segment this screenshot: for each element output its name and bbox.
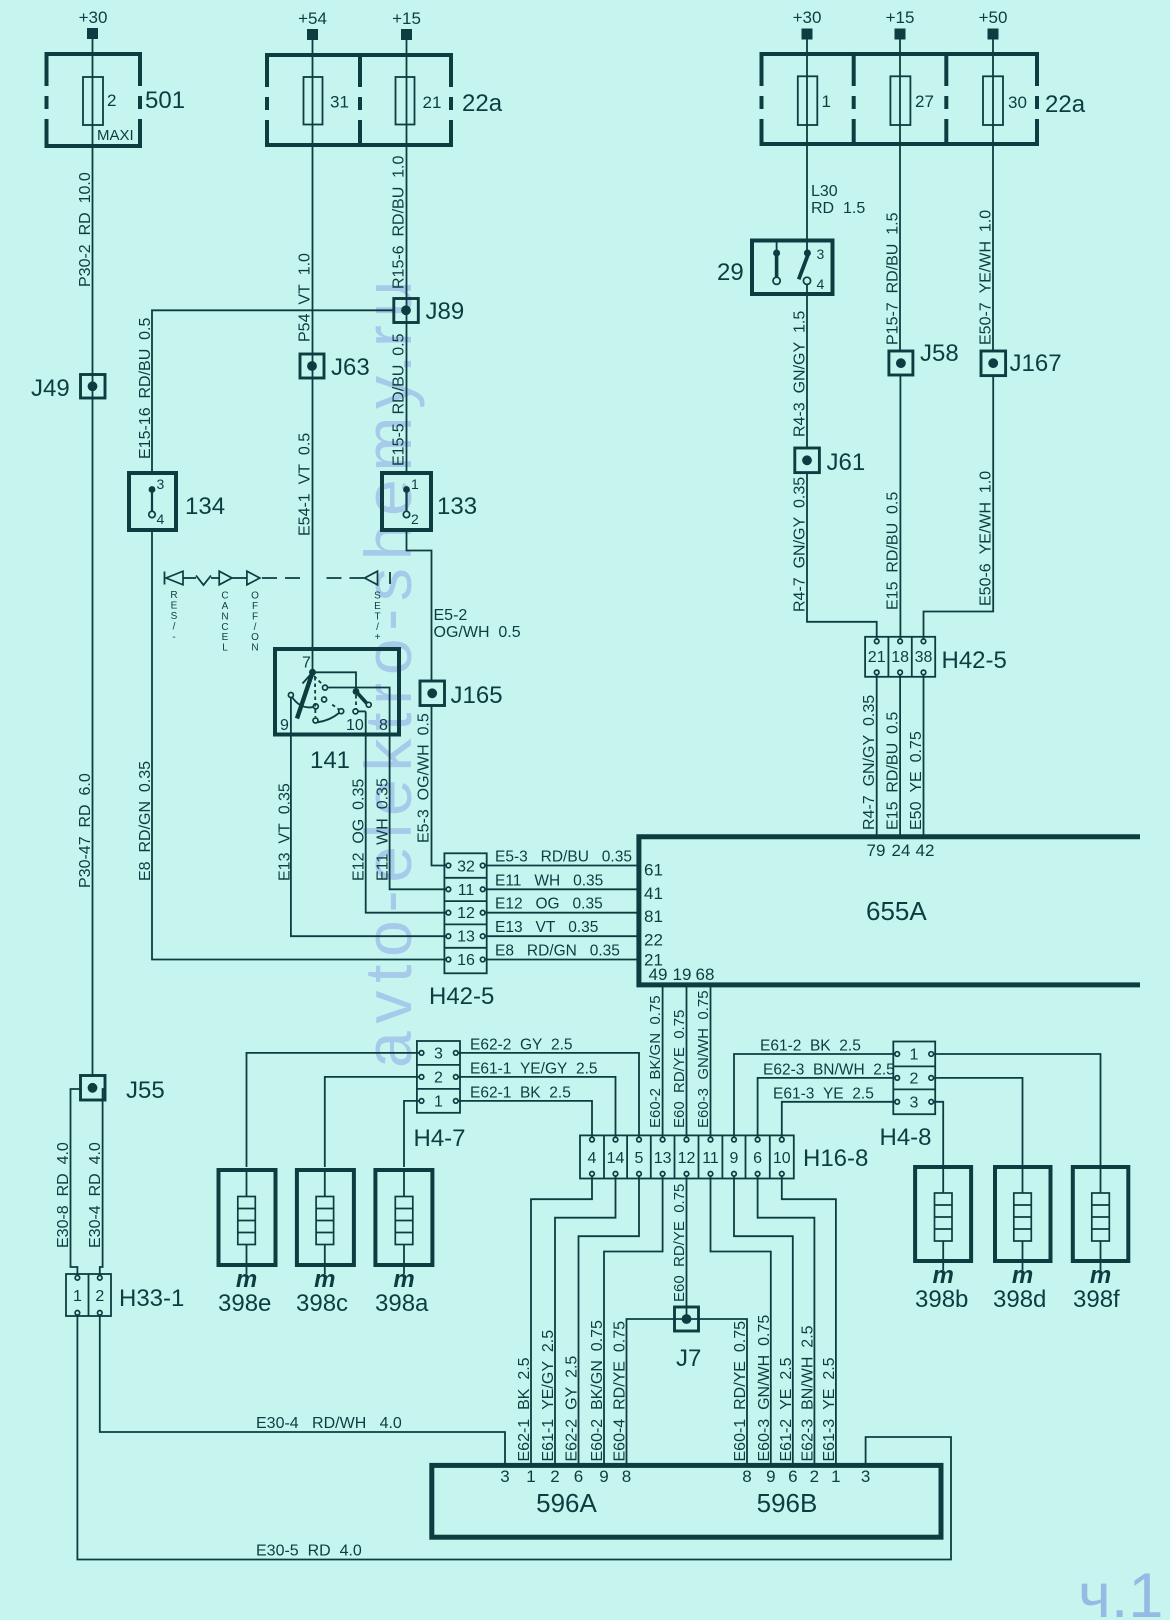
wire P15-7 RD/BU 1.5	[899, 144, 901, 351]
svg-text:29: 29	[717, 259, 744, 286]
svg-text:1: 1	[434, 1093, 443, 1110]
wire E62-3 BN/WH 2.5 H16-8 pin6 to 596B pin2	[758, 1176, 815, 1465]
svg-text:22a: 22a	[462, 90, 503, 117]
svg-text:141: 141	[310, 747, 350, 774]
svg-text:38: 38	[915, 649, 933, 666]
wire E60-1 RD/YE 0.75 J7 to 596B pin8	[687, 1319, 748, 1465]
svg-text:E54-1 VT 0.5: E54-1 VT 0.5	[297, 433, 314, 536]
svg-text:E60-3 GN/WH 0.75: E60-3 GN/WH 0.75	[756, 1315, 773, 1462]
terminal +30 right	[793, 8, 822, 40]
wire E60-3 GN/WH 0.75 655A pin68 to H16-8	[710, 985, 712, 1137]
dashed spokes	[314, 676, 323, 685]
wire E5-3 RD/BU 0.35 to 655A pin61	[485, 865, 639, 867]
wire E50-7 YE/WH 1.0	[992, 144, 994, 351]
stalk labels RES/- CANCEL OFF/ON SET/+	[170, 590, 381, 654]
wiper blade	[297, 672, 313, 718]
svg-text:596B: 596B	[757, 1488, 818, 1518]
wire R4-3 GN/GY 1.5	[806, 284, 808, 448]
svg-text:E61-3 YE 2.5: E61-3 YE 2.5	[773, 1086, 874, 1103]
link pin7 to right contact	[313, 672, 357, 689]
svg-text:H16-8: H16-8	[803, 1145, 868, 1172]
wire E61-3 YE 2.5 H16-8 pin10 to 596B pin1	[782, 1176, 836, 1465]
svg-text:12: 12	[678, 1150, 696, 1167]
svg-text:OG/WH 0.5: OG/WH 0.5	[434, 624, 521, 641]
relay 29	[717, 241, 833, 295]
svg-text:H42-5: H42-5	[942, 647, 1007, 674]
svg-text:E50-6 YE/WH 1.0: E50-6 YE/WH 1.0	[978, 471, 995, 606]
contact circles arc	[288, 693, 293, 698]
svg-text:398a: 398a	[375, 1290, 429, 1317]
svg-text:31: 31	[330, 93, 349, 112]
svg-text:m: m	[236, 1266, 257, 1293]
junction J165	[420, 681, 503, 709]
svg-text:R4-3 GN/GY 1.5: R4-3 GN/GY 1.5	[792, 311, 809, 437]
svg-text:655A: 655A	[866, 896, 927, 926]
terminal +54	[298, 9, 327, 40]
svg-text:O: O	[251, 591, 259, 602]
wire E60 RD/YE 0.75 655A pin19 to H16-8	[686, 985, 688, 1137]
wire E12 OG 0.35 pin10 to H42-5	[366, 711, 447, 912]
svg-text:8: 8	[622, 1467, 631, 1486]
svg-text:L: L	[222, 643, 228, 654]
connector H33-1	[66, 1274, 184, 1316]
junction J7	[675, 1307, 702, 1372]
svg-text:42: 42	[916, 841, 935, 860]
fuse holder 501	[43, 54, 185, 146]
svg-text:E15-16 RD/BU 0.5: E15-16 RD/BU 0.5	[137, 318, 154, 460]
wire R4-7 GN/GY 0.35 to 655A pin79	[876, 675, 878, 837]
connector H4-7	[414, 1041, 466, 1152]
wire E60-2 BK/GN 0.75 H16-8 pin13 to 596A pin9	[604, 1176, 663, 1465]
switch 134	[129, 473, 225, 530]
svg-text:R4-7 GN/GY 0.35: R4-7 GN/GY 0.35	[792, 477, 809, 612]
svg-text:398b: 398b	[915, 1286, 968, 1313]
wire E12 OG 0.35 to 655A pin81	[485, 912, 639, 914]
svg-text:398f: 398f	[1073, 1286, 1120, 1313]
wire E60-4 RD/YE 0.75 J7 to 596A pin8	[627, 1319, 687, 1465]
svg-text:68: 68	[696, 965, 715, 984]
arc segments	[292, 698, 313, 708]
svg-text:C: C	[221, 591, 228, 602]
wire +30 to fusebox 501	[92, 39, 94, 54]
svg-text:398d: 398d	[993, 1286, 1046, 1313]
connector H16-8	[580, 1135, 868, 1178]
svg-text:m: m	[393, 1266, 414, 1293]
junction J167	[981, 350, 1062, 377]
svg-text:T: T	[374, 611, 380, 622]
svg-text:21: 21	[868, 649, 886, 666]
wire P30-2 RD 10.0	[92, 146, 94, 1077]
svg-text:3: 3	[817, 246, 825, 262]
fuse holder 22a right	[758, 54, 1086, 144]
svg-text:6: 6	[753, 1150, 762, 1167]
svg-text:1: 1	[822, 92, 831, 111]
fuse 1	[798, 54, 831, 144]
svg-text:R: R	[170, 590, 177, 601]
svg-text:133: 133	[437, 493, 477, 520]
svg-text:S: S	[374, 591, 381, 602]
rotary switch 141	[275, 649, 399, 774]
svg-text:13: 13	[457, 929, 475, 946]
heater 398f	[1073, 1167, 1129, 1313]
svg-text:8: 8	[379, 717, 388, 734]
wire P54 VT 1.0	[312, 146, 314, 672]
svg-text:E60-2 BK/GN 0.75: E60-2 BK/GN 0.75	[647, 995, 664, 1128]
svg-text:E62-3 BN/WH 2.5: E62-3 BN/WH 2.5	[763, 1062, 895, 1079]
wire H4-8 pin2 to heater 398d	[934, 1078, 1023, 1167]
svg-text:J167: J167	[1010, 350, 1062, 377]
svg-text:avto-elektro-shemy.ru: avto-elektro-shemy.ru	[351, 273, 425, 1068]
svg-text:2: 2	[550, 1467, 559, 1486]
svg-text:E15 RD/BU 0.5: E15 RD/BU 0.5	[885, 712, 902, 830]
svg-text:E62-1 BK 2.5: E62-1 BK 2.5	[470, 1085, 571, 1102]
fuse 2 in 501	[83, 54, 116, 146]
wire E62-2 GY 2.5 H16-8 pin5 to 596A pin6	[579, 1176, 640, 1465]
svg-text:H42-5: H42-5	[429, 983, 494, 1010]
wire E13 VT 0.35 pin9 to H42-5	[291, 698, 446, 936]
wire H4-7 pin2 to heater 398c	[325, 1077, 419, 1167]
svg-text:O: O	[251, 632, 259, 643]
svg-text:E61-2 BK 2.5: E61-2 BK 2.5	[760, 1038, 861, 1055]
svg-text:E13 VT 0.35: E13 VT 0.35	[495, 919, 598, 936]
svg-text:7: 7	[302, 655, 311, 672]
svg-text:2: 2	[434, 1069, 443, 1086]
svg-text:E62-3 BN/WH 2.5: E62-3 BN/WH 2.5	[799, 1325, 816, 1461]
wire E50-6 YE/WH 1.0 to H42-5 pin38	[924, 376, 994, 639]
svg-text:1: 1	[910, 1047, 919, 1064]
junction J61	[795, 448, 865, 476]
svg-text:E30-4 RD 4.0: E30-4 RD 4.0	[87, 1142, 104, 1248]
svg-text:E: E	[171, 601, 178, 612]
svg-text:E61-1 YE/GY 2.5: E61-1 YE/GY 2.5	[540, 1330, 557, 1462]
svg-text:+: +	[375, 632, 381, 643]
heater 398b	[915, 1167, 971, 1313]
svg-text:E60 RD/YE 0.75: E60 RD/YE 0.75	[671, 1010, 688, 1128]
svg-text:/: /	[173, 622, 176, 633]
glow plug timer unit 596A/596B	[432, 1465, 941, 1537]
wire E8 RD/GN 0.35 from 134 to H42-5 pin16	[152, 530, 446, 960]
svg-text:10: 10	[773, 1150, 791, 1167]
svg-text:1: 1	[411, 476, 419, 492]
svg-text:E60-2 BK/GN 0.75: E60-2 BK/GN 0.75	[589, 1320, 606, 1462]
svg-text:3: 3	[861, 1467, 870, 1486]
svg-text:E30-4 RD/WH 4.0: E30-4 RD/WH 4.0	[256, 1415, 402, 1432]
svg-text:12: 12	[457, 905, 475, 922]
svg-text:J89: J89	[426, 298, 465, 325]
svg-text:J7: J7	[676, 1345, 701, 1372]
svg-text:49: 49	[649, 965, 668, 984]
svg-text:9: 9	[280, 717, 289, 734]
wire E30-4 RD 4.0 bus right	[100, 1089, 105, 1276]
svg-text:9: 9	[730, 1150, 739, 1167]
wire E50 YE 0.75 to 655A pin42	[923, 675, 925, 837]
svg-text:+15: +15	[392, 9, 421, 28]
wire H4-7 pin1 to heater 398a	[404, 1101, 419, 1167]
wire E60-2 BK/GN 0.75 655A pin49 to H16-8	[662, 985, 664, 1137]
heater 398a	[375, 1170, 432, 1317]
svg-text:E11 WH 0.35: E11 WH 0.35	[375, 778, 392, 881]
connector H42-5 left	[429, 853, 494, 1010]
svg-text:E12 OG 0.35: E12 OG 0.35	[351, 779, 368, 881]
svg-text:E50 YE 0.75: E50 YE 0.75	[908, 731, 925, 830]
svg-text:22: 22	[644, 930, 663, 949]
stalk position arrows row	[165, 571, 391, 585]
svg-text:E62-2 GY 2.5: E62-2 GY 2.5	[470, 1037, 573, 1054]
svg-text:41: 41	[644, 884, 663, 903]
svg-text:+30: +30	[79, 8, 108, 27]
svg-text:+54: +54	[298, 9, 327, 28]
svg-text:H4-7: H4-7	[414, 1125, 466, 1152]
wire E61-1 YE/GY 2.5 H16-8 pin14 to 596A pin2	[555, 1176, 616, 1465]
svg-text:E60 RD/YE 0.75: E60 RD/YE 0.75	[671, 1184, 688, 1302]
svg-text:E61-2 YE 2.5: E61-2 YE 2.5	[778, 1357, 795, 1461]
junction J89	[394, 298, 464, 325]
wire E5-3 OG/WH 0.5 from J165 to H42-5 pin32	[432, 706, 447, 866]
svg-text:J63: J63	[331, 354, 370, 381]
junction J63	[300, 354, 370, 381]
heater 398e	[218, 1170, 276, 1317]
wire E13 VT 0.35 to 655A pin22	[485, 935, 639, 937]
svg-text:R4-7 GN/GY 0.35: R4-7 GN/GY 0.35	[861, 695, 878, 830]
svg-text:E61-3 YE 2.5: E61-3 YE 2.5	[821, 1357, 838, 1461]
wire E30-8 RD 4.0 bus left	[71, 1089, 82, 1276]
svg-text:6: 6	[788, 1467, 797, 1486]
wire E60-3 GN/WH 0.75 H16-8 pin11 to 596B pin9	[711, 1176, 771, 1465]
wire E61-2 BK 2.5 H16-8 to H4-8 pin1	[734, 1054, 895, 1137]
connector H42-5 right	[865, 637, 1007, 677]
svg-text:18: 18	[891, 649, 909, 666]
fuse 21	[396, 55, 442, 145]
svg-text:N: N	[221, 611, 228, 622]
wire E62-1 BK 2.5 H4-7 pin1 to H16-8	[458, 1101, 592, 1137]
svg-text:E5-3 RD/BU 0.35: E5-3 RD/BU 0.35	[495, 849, 632, 866]
terminal +15 right	[886, 8, 915, 40]
svg-text:F: F	[252, 601, 258, 612]
fuse 31	[304, 55, 349, 145]
terminal +30 left	[79, 8, 108, 39]
wire jog from J89 to switch 134 branch	[152, 310, 394, 473]
wire E5-2 OG/WH 0.5 from 133 to J165	[407, 530, 432, 681]
svg-text:27: 27	[915, 92, 934, 111]
svg-text:m: m	[314, 1266, 335, 1293]
wire E15 RD/BU 0.5 to H42-5 pin18	[899, 375, 901, 639]
svg-text:3: 3	[157, 476, 165, 492]
wire E15 RD/BU 0.5 to 655A pin24	[899, 675, 901, 837]
svg-text:E30-5 RD 4.0: E30-5 RD 4.0	[256, 1543, 362, 1560]
svg-text:596A: 596A	[536, 1488, 597, 1518]
svg-text:11: 11	[458, 882, 475, 899]
svg-text:14: 14	[607, 1150, 625, 1167]
svg-text:E50-7 YE/WH 1.0: E50-7 YE/WH 1.0	[978, 210, 995, 345]
svg-text:E12 OG 0.35: E12 OG 0.35	[495, 896, 603, 913]
svg-text:E8 RD/GN 0.35: E8 RD/GN 0.35	[495, 943, 620, 960]
svg-text:1: 1	[831, 1467, 840, 1486]
svg-text:79: 79	[867, 841, 886, 860]
svg-text:J58: J58	[920, 340, 959, 367]
svg-text:N: N	[251, 643, 258, 654]
svg-text:9: 9	[766, 1467, 775, 1486]
svg-text:MAXI: MAXI	[97, 127, 134, 144]
svg-text:398c: 398c	[296, 1290, 348, 1317]
fuse 27	[890, 54, 934, 144]
svg-text:E5-2: E5-2	[434, 607, 468, 624]
wire E62-1 BK 2.5 H16-8 pin4 to 596A pin1	[531, 1176, 592, 1465]
svg-text:E60-3 GN/WH 0.75: E60-3 GN/WH 0.75	[695, 990, 712, 1128]
heater 398c	[296, 1170, 354, 1317]
svg-text:RD 1.5: RD 1.5	[811, 200, 865, 217]
wire E62-2 GY 2.5 H4-7 pin3 to H16-8	[458, 1053, 639, 1137]
svg-text:/: /	[254, 622, 257, 633]
svg-text:+15: +15	[886, 8, 915, 27]
junction J55	[81, 1076, 165, 1105]
heater 398d	[993, 1167, 1051, 1313]
wires terminals to fusebox	[806, 40, 808, 55]
svg-text:134: 134	[185, 493, 225, 520]
svg-text:8: 8	[742, 1467, 751, 1486]
wire R4-7 GN/GY 0.35 to H42-5 pin21	[807, 473, 877, 639]
svg-text:3: 3	[910, 1094, 919, 1111]
svg-text:-: -	[172, 632, 175, 643]
wire E61-2 YE 2.5 H16-8 pin9 to 596B pin6	[734, 1176, 793, 1465]
svg-text:P30-2 RD 10.0: P30-2 RD 10.0	[77, 172, 94, 287]
wire H4-8 pin1 to heater 398f	[934, 1054, 1101, 1167]
svg-text:ч.1: ч.1	[1078, 1561, 1163, 1620]
connector H4-8	[880, 1042, 936, 1152]
svg-text:398e: 398e	[218, 1290, 271, 1317]
svg-text:81: 81	[644, 907, 663, 926]
svg-text:E11 WH 0.35: E11 WH 0.35	[495, 872, 603, 889]
pin7 contact dot	[309, 669, 316, 676]
wire E11 WH 0.35 to 655A pin41	[485, 888, 639, 890]
right blade	[356, 692, 367, 704]
wire E30-5 RD 4.0 H33-1 pin1 to 596B pin3	[77, 1315, 951, 1560]
svg-text:H33-1: H33-1	[119, 1285, 184, 1312]
svg-text:+50: +50	[979, 8, 1008, 27]
fuse 30	[983, 54, 1027, 144]
control unit 655A	[639, 837, 1140, 985]
svg-text:E: E	[222, 632, 229, 643]
svg-text:E15 RD/BU 0.5: E15 RD/BU 0.5	[885, 492, 902, 610]
svg-text:32: 32	[457, 859, 475, 876]
svg-text:R15-6 RD/BU 1.0: R15-6 RD/BU 1.0	[391, 156, 408, 289]
junction J58	[889, 340, 959, 375]
svg-text:24: 24	[892, 841, 911, 860]
wire H4-8 pin3 to heater 398b	[934, 1102, 944, 1167]
svg-text:H4-8: H4-8	[880, 1124, 932, 1151]
svg-text:J165: J165	[451, 682, 503, 709]
wire E61-3 YE 2.5 H16-8 to H4-8 pin3	[782, 1102, 895, 1137]
svg-text:E61-1 YE/GY 2.5: E61-1 YE/GY 2.5	[470, 1061, 598, 1078]
fuse holder 22a middle	[264, 55, 503, 145]
svg-text:P15-7 RD/BU 1.5: P15-7 RD/BU 1.5	[885, 212, 902, 345]
svg-text:1: 1	[73, 1288, 82, 1305]
svg-text:4: 4	[588, 1150, 597, 1167]
svg-text:10: 10	[346, 717, 364, 734]
wire R15-6 RD/BU 1.0	[406, 146, 408, 473]
svg-text:21: 21	[423, 93, 442, 112]
svg-text:2: 2	[810, 1467, 819, 1486]
svg-text:m: m	[1090, 1262, 1111, 1289]
wire +54 drop	[312, 40, 314, 55]
svg-text:E8 RD/GN 0.35: E8 RD/GN 0.35	[137, 761, 154, 881]
wire E62-3 BN/WH 2.5 H16-8 to H4-8 pin2	[758, 1078, 895, 1137]
svg-text:501: 501	[145, 87, 185, 114]
dashed drop to contact 10	[355, 695, 357, 709]
svg-text:4: 4	[817, 276, 825, 292]
svg-text:m: m	[933, 1262, 954, 1289]
contact 10 link	[358, 710, 365, 712]
svg-text:L30: L30	[811, 183, 838, 200]
svg-text:3: 3	[500, 1467, 509, 1486]
svg-text:E60-1 RD/YE 0.75: E60-1 RD/YE 0.75	[732, 1321, 749, 1462]
wire E11 WH 0.35 pin8 to H42-5	[328, 688, 446, 890]
wire H4-7 pin3 to heater 398e	[247, 1053, 420, 1167]
wire L30 RD 1.5	[806, 144, 808, 253]
svg-text:2: 2	[411, 511, 419, 527]
wire E60 RD/YE 0.75 H16-8 pin12 to J7	[686, 1176, 688, 1319]
svg-text:22a: 22a	[1045, 91, 1086, 118]
svg-text:13: 13	[654, 1150, 672, 1167]
wire +15 drop	[406, 40, 408, 55]
svg-text:2: 2	[107, 91, 116, 110]
svg-text:m: m	[1012, 1262, 1033, 1289]
svg-text:3: 3	[434, 1045, 443, 1062]
svg-text:C: C	[221, 622, 228, 633]
svg-text:E60-4 RD/YE 0.75: E60-4 RD/YE 0.75	[612, 1321, 629, 1462]
svg-text:+30: +30	[793, 8, 822, 27]
svg-text:J49: J49	[31, 375, 70, 402]
svg-text:E62-1 BK 2.5: E62-1 BK 2.5	[516, 1357, 533, 1461]
svg-text:6: 6	[574, 1467, 583, 1486]
svg-text:P30-47 RD 6.0: P30-47 RD 6.0	[77, 773, 94, 888]
svg-text:30: 30	[1008, 93, 1027, 112]
switch 133	[382, 473, 477, 530]
svg-text:E62-2 GY 2.5: E62-2 GY 2.5	[564, 1356, 581, 1462]
svg-text:E15-5 RD/BU 0.5: E15-5 RD/BU 0.5	[391, 333, 408, 466]
wire E8 RD/GN 0.35 to 655A pin21	[485, 959, 639, 961]
svg-text:J55: J55	[126, 1077, 165, 1104]
terminal +50	[979, 8, 1008, 40]
svg-text:2: 2	[910, 1070, 919, 1087]
wire E30-4 RD/WH 4.0 H33-1 pin2 to 596A pin3	[100, 1315, 505, 1465]
svg-text:4: 4	[157, 511, 165, 527]
svg-text:5: 5	[635, 1150, 644, 1167]
svg-text:1: 1	[526, 1467, 535, 1486]
svg-text:16: 16	[457, 952, 475, 969]
svg-text:/: /	[376, 622, 379, 633]
svg-text:61: 61	[644, 861, 663, 880]
svg-text:J61: J61	[827, 449, 866, 476]
svg-text:P54 VT 1.0: P54 VT 1.0	[297, 253, 314, 342]
svg-text:S: S	[171, 611, 178, 622]
terminal +15	[392, 9, 421, 40]
svg-text:2: 2	[95, 1288, 104, 1305]
svg-text:A: A	[222, 601, 229, 612]
junction J49	[31, 375, 105, 403]
svg-text:E5-3 OG/WH 0.5: E5-3 OG/WH 0.5	[416, 713, 433, 843]
svg-text:19: 19	[673, 965, 692, 984]
svg-text:E: E	[374, 601, 381, 612]
svg-text:9: 9	[599, 1467, 608, 1486]
wire E61-1 YE/GY 2.5 H4-7 pin2 to H16-8	[458, 1077, 615, 1137]
svg-text:F: F	[252, 611, 258, 622]
svg-text:11: 11	[702, 1150, 719, 1167]
svg-text:E30-8 RD 4.0: E30-8 RD 4.0	[55, 1142, 72, 1248]
svg-text:E13 VT 0.35: E13 VT 0.35	[276, 783, 293, 881]
